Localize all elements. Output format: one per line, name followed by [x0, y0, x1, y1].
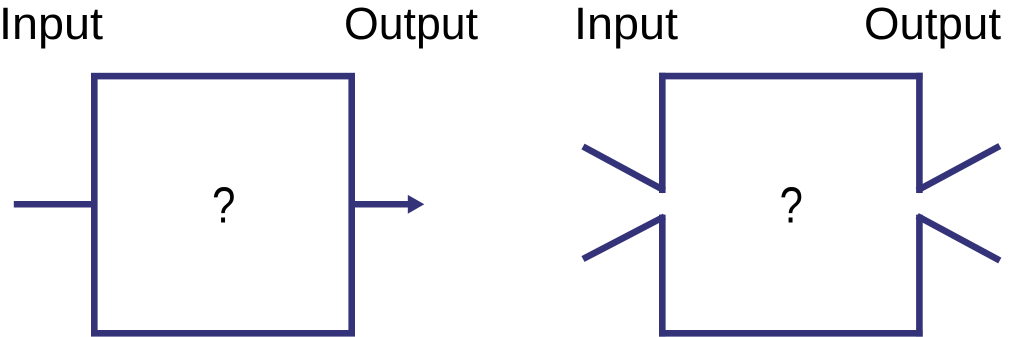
wire: upper output lead (right block) [917, 146, 1000, 191]
box: right unknown-system block (edges with port gaps) [659, 73, 923, 337]
svg-text:?: ? [212, 176, 235, 233]
wire: input lead into left block [14, 201, 94, 208]
wire: lower output lead (right block) [917, 216, 1000, 261]
svg-text:Input: Input [574, 0, 678, 49]
wire: upper input lead (right block) [583, 147, 665, 191]
svg-text:?: ? [780, 176, 803, 233]
svg-text:Output: Output [864, 0, 1001, 49]
arrowhead on output of left block [408, 195, 425, 214]
box: left unknown-system block [94, 76, 351, 333]
wire: output lead out of left block [352, 201, 409, 208]
svg-text:Input: Input [0, 0, 103, 49]
svg-text:Output: Output [344, 0, 478, 49]
wire: lower input lead (right block) [583, 217, 665, 260]
